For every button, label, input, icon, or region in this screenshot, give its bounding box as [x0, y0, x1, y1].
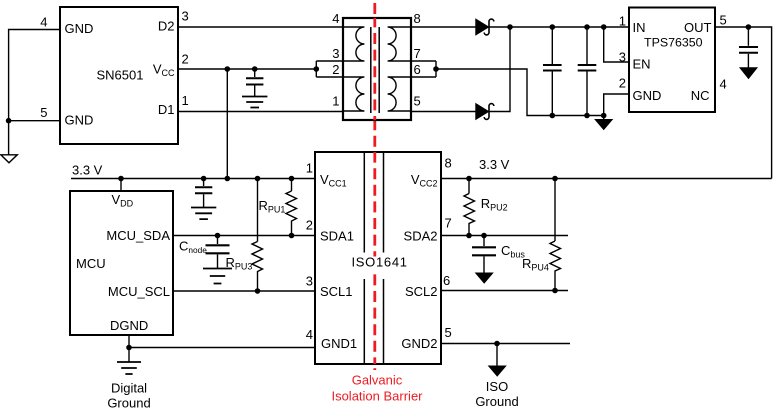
- wire TPS GND to iso ground rail: [604, 94, 629, 120]
- junction SCL1/RPU3: [255, 288, 261, 294]
- transformer secondary winding bottom (pins 6-5): [388, 77, 411, 111]
- svg-text:SDA2: SDA2: [404, 229, 438, 244]
- wire EN tie to input rail: [604, 27, 629, 62]
- IC U3 MCU body: [70, 191, 173, 335]
- capacitor on Vcc line: [246, 69, 263, 96]
- Schottky diode bottom (anode at transformer pin5): [476, 104, 494, 120]
- svg-text:3: 3: [332, 46, 339, 61]
- svg-text:3: 3: [182, 9, 189, 24]
- svg-text:D1: D1: [158, 102, 175, 117]
- svg-text:GND: GND: [65, 113, 94, 128]
- junction cap1 top: [550, 24, 556, 30]
- junction SDA2/Cbus: [481, 233, 487, 239]
- wire D2 to transformer pin4: [178, 26, 343, 28]
- svg-text:8: 8: [414, 11, 421, 26]
- svg-text:MCU_SCL: MCU_SCL: [108, 284, 170, 299]
- svg-text:SN6501: SN6501: [97, 68, 144, 83]
- junction rail/RPU3: [255, 176, 261, 182]
- svg-text:SCL1: SCL1: [320, 284, 353, 299]
- svg-text:Ground: Ground: [475, 394, 518, 409]
- wire MCU DGND down: [128, 335, 130, 362]
- galvanic isolation barrier red dashed line: [373, 3, 376, 370]
- svg-text:MCU: MCU: [76, 256, 106, 271]
- wire Vcc from SN6501 pin2: [178, 68, 316, 70]
- transformer core lines: [371, 27, 379, 113]
- svg-text:1: 1: [182, 93, 189, 108]
- svg-text:1: 1: [332, 94, 339, 109]
- junction Vcc fork: [314, 66, 320, 72]
- svg-text:SDA1: SDA1: [320, 229, 354, 244]
- svg-text:4: 4: [332, 11, 339, 26]
- svg-text:4: 4: [40, 15, 47, 30]
- wire transformer pin5 to bottom diode: [411, 111, 476, 113]
- wire GND2: [441, 343, 570, 345]
- wire SN6501 pin4 GND to left rail: [9, 30, 60, 155]
- IC U2 TPS76350 body: [629, 8, 715, 113]
- junction rail/vertical: [225, 176, 231, 182]
- svg-text:Digital: Digital: [111, 381, 147, 396]
- junction cap2 top: [584, 24, 590, 30]
- svg-text:IN: IN: [633, 20, 646, 35]
- svg-text:4: 4: [720, 77, 727, 92]
- wire top diode cathode to TPS input rail: [489, 26, 629, 28]
- svg-text:NC: NC: [691, 88, 710, 103]
- wire TPS OUT to right edge and down to isolated 3.3V rail: [715, 27, 772, 179]
- svg-text:5: 5: [414, 94, 421, 109]
- ground (filled triangle) at rectifier: [595, 120, 612, 130]
- IC U4 ISO1641 body: [315, 152, 441, 364]
- junction GND2/iso ground: [494, 341, 500, 347]
- svg-text:1: 1: [306, 161, 313, 176]
- junction rail/RPU1: [289, 176, 295, 182]
- junction at pin5/ground vertical: [6, 118, 12, 124]
- svg-text:3: 3: [306, 274, 313, 289]
- junction rail/RPU4: [552, 176, 558, 182]
- wire bottom diode cathode up to rail: [489, 27, 510, 112]
- junction EN tie: [601, 24, 607, 30]
- svg-text:5: 5: [445, 325, 452, 340]
- wire SCL2: [441, 290, 568, 292]
- wire transformer pin8 to top diode: [411, 26, 476, 28]
- resistor RPU3: [252, 179, 263, 292]
- svg-text:5: 5: [720, 13, 727, 28]
- capacitor rectifier output 1: [543, 27, 562, 116]
- junction rail/decoupling cap: [201, 176, 207, 182]
- transformer primary winding bottom (pins 2-1): [343, 77, 364, 111]
- earth ground digital: [117, 362, 141, 374]
- IC U1 SN6501 body: [60, 7, 178, 144]
- transformer primary winding top (pins 4-3): [343, 27, 364, 61]
- earth ground below rail capacitor: [191, 208, 216, 220]
- junction rail/RPU2: [466, 176, 472, 182]
- junction SDA1/RPU1: [289, 233, 295, 239]
- label Galvanic Isolation Barrier (red): [331, 373, 423, 404]
- junction diode outputs: [507, 24, 513, 30]
- wire VDD drop to MCU: [120, 179, 122, 192]
- svg-text:DGND: DGND: [110, 318, 148, 333]
- capacitor Cbus: [472, 236, 496, 274]
- svg-text:3.3 V: 3.3 V: [72, 163, 103, 178]
- wire iso ground stub: [496, 344, 498, 367]
- svg-text:Galvanic: Galvanic: [352, 373, 403, 388]
- wire MCU_SCL to ISO1641 SCL1: [173, 290, 315, 292]
- svg-text:5: 5: [40, 105, 47, 120]
- capacitor rectifier output 2: [578, 27, 597, 116]
- resistor RPU4: [550, 179, 561, 291]
- svg-text:Ground: Ground: [107, 396, 150, 411]
- wire isolated 3.3V rail to ISO1641 Vcc2: [441, 178, 772, 180]
- svg-text:GND2: GND2: [401, 336, 437, 351]
- svg-text:3.3 V: 3.3 V: [479, 157, 510, 172]
- junction OUT/output cap: [746, 24, 752, 30]
- svg-text:2: 2: [182, 52, 189, 67]
- svg-text:ISO: ISO: [486, 379, 508, 394]
- ground (filled triangle) at TPS output cap: [740, 68, 757, 79]
- junction DGND/GND1: [126, 345, 132, 351]
- svg-text:2: 2: [306, 218, 313, 233]
- svg-text:2: 2: [332, 62, 339, 77]
- svg-text:Isolation Barrier: Isolation Barrier: [331, 389, 423, 404]
- svg-text:3: 3: [619, 50, 626, 65]
- wire SN6501 pin5 GND: [9, 120, 60, 122]
- svg-text:7: 7: [445, 216, 452, 231]
- capacitor on 3.3V rail: [195, 179, 212, 208]
- ground (open triangle) at SN6501 GND: [1, 155, 18, 163]
- transformer T1 body: [343, 18, 411, 120]
- junction Vcc/capacitor: [252, 66, 258, 72]
- wire GND1 line to ISO1641: [129, 347, 315, 349]
- junction SCL2/RPU4: [552, 288, 558, 294]
- svg-text:MCU_SDA: MCU_SDA: [106, 228, 170, 243]
- svg-text:6: 6: [414, 62, 421, 77]
- svg-text:D2: D2: [158, 19, 175, 34]
- svg-text:7: 7: [414, 46, 421, 61]
- wire secondary center-tap fork pins 7,6: [411, 61, 436, 77]
- label Digital Ground: [107, 381, 150, 411]
- ground (filled triangle) ISO ground: [489, 366, 506, 376]
- wire SDA2: [441, 235, 568, 237]
- junction cap2 bottom: [584, 113, 590, 119]
- svg-text:8: 8: [445, 156, 452, 171]
- junction Vcc/vertical: [225, 66, 231, 72]
- wire center-tap to iso ground rail: [436, 69, 604, 116]
- wire D1 to transformer pin1: [178, 111, 343, 113]
- ground (filled triangle) below Cbus: [476, 273, 493, 283]
- svg-text:OUT: OUT: [684, 20, 712, 35]
- svg-text:4: 4: [306, 327, 313, 342]
- svg-text:ISO1641: ISO1641: [352, 255, 408, 270]
- label ISO Ground: [475, 379, 518, 409]
- wire left 3.3V rail: [71, 178, 315, 180]
- ISO1641 labels: [320, 172, 438, 351]
- svg-text:TPS76350: TPS76350: [644, 36, 703, 50]
- svg-text:GND: GND: [65, 21, 94, 36]
- wire fork to transformer pins 3 and 2: [316, 61, 343, 77]
- wire Vcc down to 3.3V rail: [226, 69, 228, 179]
- junction SDA1/Cnode: [215, 233, 221, 239]
- svg-text:SCL2: SCL2: [405, 284, 438, 299]
- junction ground rail: [601, 113, 607, 119]
- junction rail/VDD: [118, 176, 124, 182]
- transformer secondary winding top (pins 8-7): [388, 27, 411, 61]
- junction SDA2/RPU2: [466, 233, 472, 239]
- junction center-tap fork: [433, 66, 439, 72]
- svg-text:1: 1: [619, 14, 626, 29]
- svg-text:GND1: GND1: [321, 336, 357, 351]
- wire MCU_SDA to ISO1641 SDA1: [173, 235, 315, 237]
- capacitor at TPS output: [739, 27, 758, 68]
- galvanic isolation red dashes inside ISO1641 redrawn: [373, 152, 376, 364]
- resistor RPU2: [464, 179, 475, 236]
- earth ground below Cnode: [203, 269, 232, 284]
- svg-text:GND: GND: [633, 88, 662, 103]
- resistor RPU1: [286, 179, 297, 236]
- svg-text:2: 2: [619, 76, 626, 91]
- svg-text:6: 6: [443, 273, 450, 288]
- galvanic isolation red dashes inside transformer: [373, 18, 376, 120]
- junction cap1 bottom: [550, 113, 556, 119]
- Schottky diode top (anode at transformer pin8): [476, 19, 494, 35]
- earth ground below Vcc capacitor: [242, 97, 267, 108]
- svg-text:EN: EN: [633, 57, 651, 72]
- capacitor Cnode: [206, 236, 230, 269]
